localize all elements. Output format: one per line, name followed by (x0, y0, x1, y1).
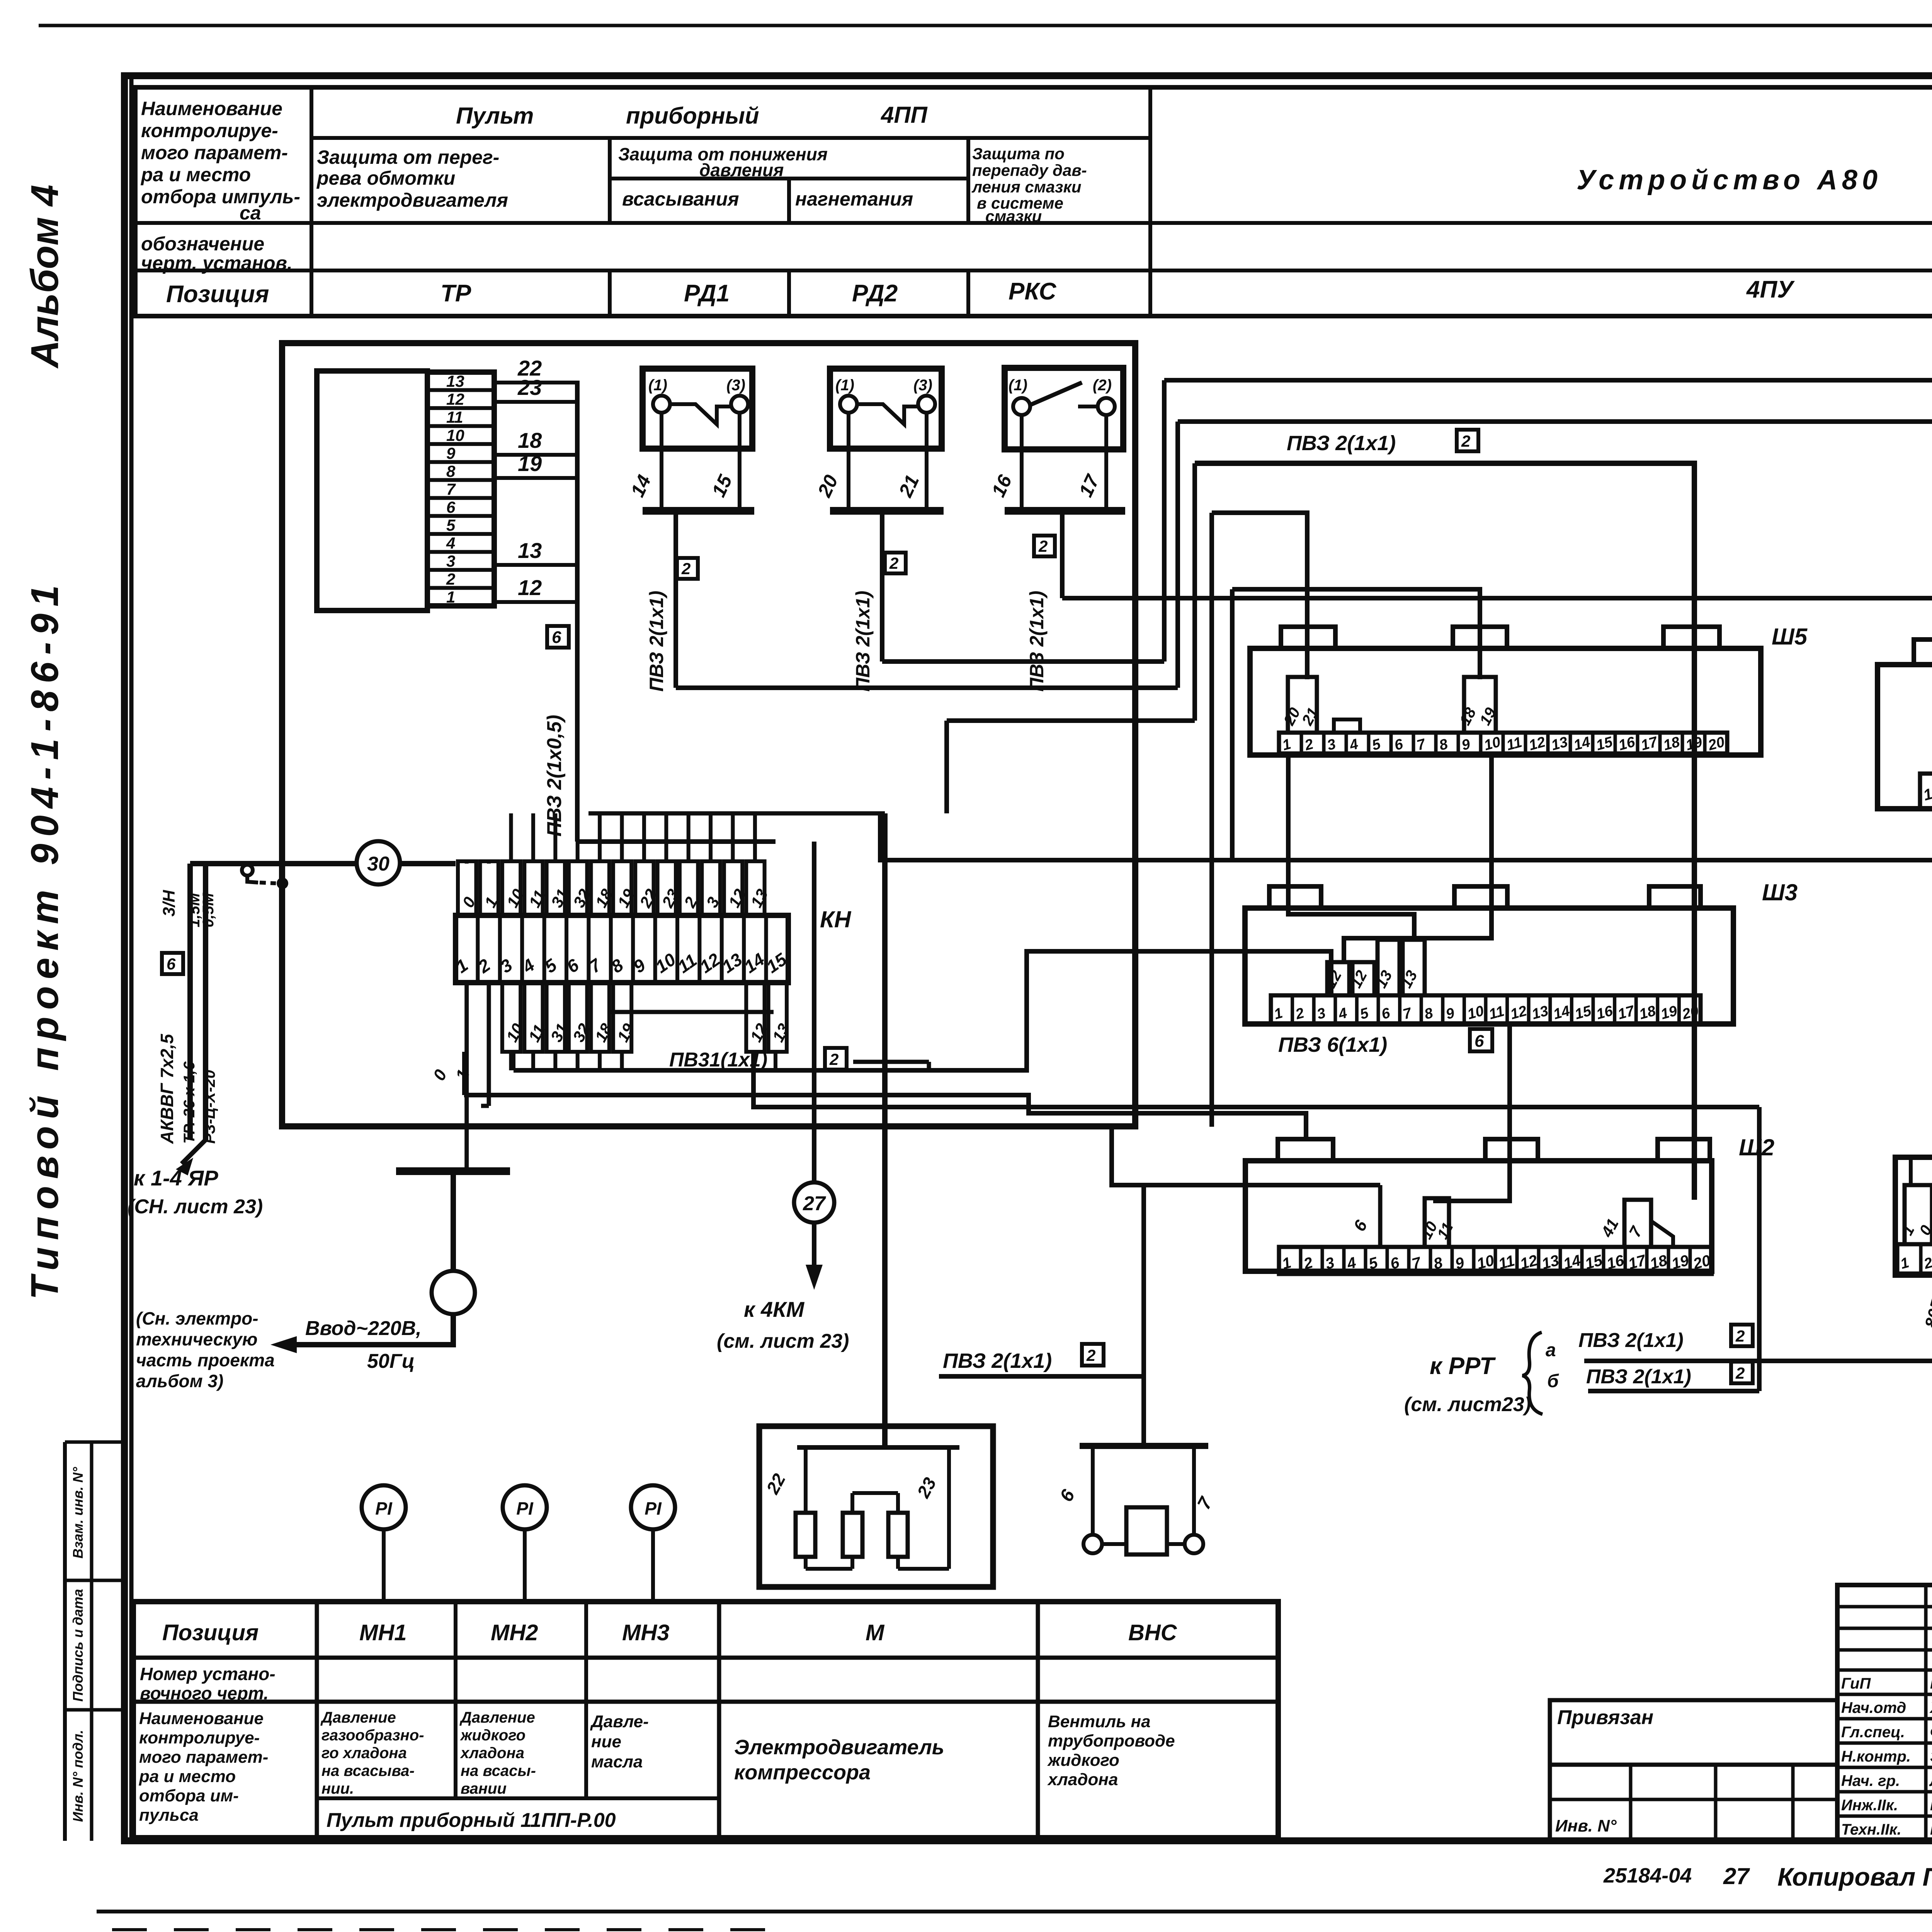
M motor box (759, 1426, 993, 1587)
svg-text:на всасыва-: на всасыва- (321, 1762, 415, 1779)
wire run cable1 to riser (676, 685, 1178, 690)
svg-text:6: 6 (1393, 736, 1405, 753)
svg-text:Нач.отд: Нач.отд (1841, 1699, 1906, 1716)
top table vertical col4 (966, 138, 970, 223)
svg-text:са: са (240, 202, 261, 224)
svg-text:техническую: техническую (136, 1329, 258, 1349)
left cable arrow to 1-4 YaR (182, 1140, 206, 1164)
svg-text:ра и место: ра и место (139, 1767, 236, 1786)
Sh4 tabs on top (1914, 639, 1932, 665)
svg-text:12: 12 (1509, 1003, 1529, 1023)
contact RKS box (1005, 368, 1123, 449)
top table outer border (135, 87, 1932, 316)
top table line under Zashchita ot ponizheniya davleniya (610, 177, 968, 180)
wire run H5 to Sh5 tag 18 19 (1232, 589, 1480, 679)
svg-text:Пульт: Пульт (456, 103, 534, 129)
svg-text:КН: КН (820, 906, 852, 932)
shield hook symbol (242, 865, 253, 876)
wire from KN 12 13 tags to y2865 run (753, 1052, 1759, 1107)
KN node30 wires up from tags 0 1 (465, 861, 469, 864)
svg-text:6: 6 (1056, 1486, 1079, 1505)
svg-text:0,5М: 0,5М (200, 892, 217, 927)
svg-text:11: 11 (446, 408, 463, 426)
svg-text:ПВЗ 2(1х1): ПВЗ 2(1х1) (852, 591, 874, 692)
svg-text:9: 9 (1444, 1005, 1456, 1023)
svg-text:11: 11 (1487, 1003, 1506, 1023)
svg-text:17: 17 (1639, 734, 1660, 754)
svg-text:жидкого: жидкого (460, 1727, 526, 1744)
svg-text:19: 19 (518, 451, 542, 476)
svg-text:4: 4 (446, 534, 455, 552)
bottom table vertical lines (315, 1602, 319, 1838)
svg-text:20: 20 (813, 471, 842, 500)
svg-text:Давление: Давление (459, 1709, 535, 1726)
svg-text:2: 2 (1735, 1364, 1745, 1382)
svg-text:(1): (1) (835, 377, 854, 394)
top table vertical col5 (1148, 87, 1152, 316)
svg-text:ТР. 26 х 1,6: ТР. 26 х 1,6 (181, 1061, 198, 1144)
svg-text:давления: давления (699, 160, 784, 180)
svg-text:к РРТ: к РРТ (1430, 1353, 1496, 1379)
contact RKS blade symbol open (1030, 383, 1082, 405)
svg-text:к 1-4 ЯР: к 1-4 ЯР (134, 1166, 218, 1190)
M motor winding 2 (843, 1513, 862, 1557)
svg-text:(3): (3) (726, 377, 745, 394)
svg-text:7: 7 (1401, 1005, 1414, 1023)
Sh3 tag 12a (1327, 962, 1349, 995)
PI gauge MN2 (503, 1485, 547, 1529)
Sh5 tabs on top (1281, 627, 1335, 648)
svg-text:50Гц: 50Гц (367, 1350, 415, 1372)
wire to 4KM with circle 27 (812, 842, 816, 1182)
contact RD1 cable down (880, 511, 884, 662)
4PP panel enclosure box (282, 343, 1135, 1126)
svg-text:ПВЗ 2(1х1): ПВЗ 2(1х1) (943, 1349, 1052, 1372)
wire short jog with marker 2 (853, 1060, 929, 1064)
svg-text:Давление: Давление (320, 1709, 396, 1726)
svg-text:3: 3 (1315, 1005, 1327, 1023)
contact RD1 box (830, 369, 942, 449)
Sh5 tag 20 21 (1288, 677, 1317, 733)
svg-text:13: 13 (747, 886, 771, 910)
svg-text:2: 2 (1293, 1005, 1306, 1023)
svg-text:вочного черт.: вочного черт. (140, 1683, 269, 1703)
svg-text:Боговская: Боговская (1930, 1797, 1932, 1814)
svg-text:6: 6 (167, 955, 176, 973)
svg-text:17: 17 (1616, 1003, 1637, 1023)
Sh1 terminal strip box (1895, 1157, 1932, 1275)
privyazan lower grid (1550, 1765, 1837, 1840)
KN top tag rects with wire numbers (458, 861, 476, 915)
svg-text:16: 16 (1617, 734, 1637, 754)
svg-text:Защита от перег-: Защита от перег- (317, 146, 499, 168)
svg-text:нии.: нии. (321, 1780, 354, 1797)
svg-text:(1): (1) (648, 377, 667, 394)
svg-text:черт. установ.: черт. установ. (141, 252, 293, 274)
svg-text:Инж.IIк.: Инж.IIк. (1841, 1797, 1898, 1814)
contact RKS bottom bus (1005, 507, 1125, 515)
Sh2 tag 7 with diagonal (1624, 1200, 1651, 1247)
Sh1 cells 1-30 (1897, 1244, 1932, 1274)
contact RKS cable marker 2 (1034, 536, 1055, 556)
svg-text:18: 18 (1456, 705, 1480, 728)
svg-text:Ш2: Ш2 (1739, 1134, 1774, 1160)
svg-text:ПВЗ 2(1х1): ПВЗ 2(1х1) (1578, 1329, 1684, 1352)
svg-text:мого парамет-: мого парамет- (141, 142, 288, 163)
left margin stamp column (63, 1442, 67, 1841)
contact RD1 blade symbol (857, 404, 918, 424)
svg-text:1: 1 (1899, 1255, 1911, 1272)
contact TR box (643, 369, 752, 449)
bottom table outer border (133, 1602, 1278, 1838)
wire KN tag13 down join (774, 1052, 777, 1070)
svg-text:10: 10 (1482, 734, 1502, 754)
svg-text:8: 8 (446, 462, 456, 480)
svg-text:мого парамет-: мого парамет- (139, 1748, 268, 1767)
KN bottom tag rects left group 10 11 31 32 18 19 (502, 983, 520, 1052)
wire into Sh2 tag7 from riser (1692, 1139, 1697, 1200)
svg-text:17: 17 (1075, 471, 1104, 500)
KN top bundle horizontals (588, 811, 885, 816)
svg-text:2: 2 (829, 1050, 838, 1068)
svg-text:го хладона: го хладона (321, 1745, 407, 1762)
M motor wiring (804, 1447, 808, 1513)
contact RD1 terminal circles (840, 396, 857, 413)
Sh3 tabs on top (1269, 886, 1321, 908)
svg-text:(1): (1) (1009, 377, 1027, 394)
svg-text:(Сн. электро-: (Сн. электро- (136, 1308, 259, 1328)
top table vertical col3 sub (787, 179, 791, 223)
svg-text:11: 11 (1505, 734, 1524, 754)
Sh3 tag 13b (1403, 940, 1425, 995)
svg-text:13: 13 (1530, 1003, 1550, 1023)
svg-text:Альбом 4: Альбом 4 (23, 185, 66, 369)
svg-text:30: 30 (367, 853, 389, 875)
svg-text:(3): (3) (913, 377, 932, 394)
arrow down to 4KM (812, 1223, 816, 1267)
svg-text:1: 1 (1899, 1223, 1918, 1238)
Sh2 cells 1-20 (1279, 1247, 1712, 1274)
svg-text:МН2: МН2 (491, 1620, 538, 1645)
bottom table row line under Pozitsiya (133, 1656, 1278, 1660)
svg-text:жидкого: жидкого (1047, 1751, 1119, 1770)
wire run H1 to Sh4 tag15 (1164, 380, 1932, 700)
svg-text:Давле-: Давле- (590, 1712, 649, 1731)
svg-text:2: 2 (1038, 537, 1048, 555)
svg-text:Типовой проект 904-1-86-91: Типовой проект 904-1-86-91 (23, 578, 66, 1299)
contact RD1 bottom bus (830, 507, 944, 515)
svg-text:Пульт приборный 11ПП-Р.00: Пульт приборный 11ПП-Р.00 (327, 1809, 616, 1832)
svg-text:23: 23 (517, 375, 542, 400)
M motor top bar (797, 1445, 959, 1450)
svg-text:9: 9 (1460, 736, 1472, 754)
wire run H2 to Sh4 tag17 (1178, 422, 1932, 713)
left cable marker box 6 (162, 953, 183, 974)
svg-text:18: 18 (1638, 1003, 1658, 1023)
svg-text:всасывания: всасывания (622, 188, 739, 210)
Sh3 terminal strip box (1245, 908, 1733, 1024)
wire run H6 RKS to far right riser (1062, 598, 1932, 1349)
svg-text:14: 14 (1551, 1003, 1571, 1023)
svg-text:Электродвигатель: Электродвигатель (734, 1736, 944, 1759)
svg-text:ра и место: ра и место (140, 164, 251, 185)
svg-text:часть проекта: часть проекта (136, 1350, 275, 1370)
svg-text:7: 7 (446, 480, 456, 498)
svg-text:б: б (1547, 1371, 1559, 1391)
svg-text:трубопроводе: трубопроводе (1048, 1731, 1175, 1750)
svg-text:9: 9 (446, 444, 456, 462)
svg-text:19: 19 (1684, 734, 1704, 754)
svg-text:Ввод~220В,: Ввод~220В, (305, 1317, 422, 1340)
svg-text:5: 5 (1358, 1005, 1371, 1022)
svg-text:масла: масла (591, 1752, 643, 1771)
top table horizontal line under oboznachenie row (135, 269, 1932, 272)
sheet outer top trim line (39, 24, 1932, 27)
transformer circle (451, 1171, 456, 1271)
VNS right leg with circle 7 (1192, 1446, 1196, 1535)
svg-text:13: 13 (446, 372, 464, 390)
svg-text:13: 13 (769, 1020, 793, 1045)
svg-text:12: 12 (446, 390, 464, 408)
top table horizontal line under header (135, 221, 1932, 225)
contact RD1 wires down 20 21 (847, 413, 850, 511)
svg-text:18: 18 (518, 428, 542, 452)
contact TR cable marker 2 (677, 558, 698, 579)
svg-text:Григорьян: Григорьян (1930, 1675, 1932, 1692)
frame left inner doubling line (129, 77, 134, 1839)
Sh3 tag 13a (1378, 940, 1400, 995)
svg-text:6: 6 (1350, 1217, 1371, 1235)
svg-text:(2): (2) (1093, 377, 1112, 394)
svg-text:РД2: РД2 (852, 280, 898, 307)
Sh4 cells 1-20 (1920, 774, 1932, 809)
svg-text:1: 1 (1281, 736, 1293, 754)
Sh5 tag 18 19 (1464, 677, 1496, 733)
svg-text:1: 1 (1272, 1005, 1284, 1023)
wire long run PV31 y2770 to Sh3 tag12 (514, 951, 1331, 1070)
svg-text:5: 5 (446, 516, 456, 534)
svg-text:ние: ние (591, 1732, 621, 1751)
svg-text:Позиция: Позиция (166, 281, 269, 308)
svg-text:Христофоров: Христофоров (1929, 1699, 1932, 1716)
Sh2 tag 10 11 (1425, 1198, 1449, 1247)
top table vertical col1 (310, 87, 313, 316)
svg-text:Н.контр.: Н.контр. (1841, 1748, 1911, 1765)
KN circle node 30 (357, 841, 400, 884)
svg-text:4ПП: 4ПП (881, 102, 928, 128)
terminal block cell column KN13 (427, 372, 494, 606)
privyazan box (1550, 1700, 1837, 1765)
Sh5 terminal strip box (1250, 648, 1761, 755)
svg-text:25184-04: 25184-04 (1603, 1864, 1692, 1887)
svg-text:4: 4 (1347, 736, 1360, 754)
svg-text:2: 2 (1922, 1255, 1932, 1272)
svg-text:Копировал Павлова: Копировал Павлова (1777, 1862, 1932, 1891)
svg-text:Взам. инв. N°: Взам. инв. N° (70, 1467, 86, 1559)
Sh2 tabs on top (1278, 1139, 1333, 1161)
Sh1 tag 1 0 (1905, 1185, 1932, 1244)
svg-text:Фукс: Фукс (1930, 1724, 1932, 1741)
svg-text:3: 3 (446, 552, 455, 570)
svg-text:РЗ-Ц-Х-20: РЗ-Ц-Х-20 (201, 1070, 218, 1144)
svg-text:11: 11 (1434, 1220, 1456, 1242)
top table vertical col2 (608, 138, 612, 223)
svg-text:4ПУ: 4ПУ (1746, 276, 1795, 303)
wire from Sh3 tags down to Sh2 tag 10 11 (1435, 1024, 1510, 1201)
svg-text:РД1: РД1 (684, 280, 730, 307)
svg-text:5: 5 (1370, 736, 1383, 753)
svg-text:хладона: хладона (460, 1745, 524, 1762)
contact TR terminal circles (653, 396, 670, 413)
svg-text:22: 22 (762, 1470, 789, 1498)
svg-text:Золоторева: Золоторева (1930, 1748, 1932, 1765)
svg-text:0: 0 (430, 1066, 451, 1084)
svg-text:Инв. N°: Инв. N° (1555, 1816, 1617, 1835)
svg-text:ГиП: ГиП (1841, 1675, 1871, 1692)
wire riser x3013 (1162, 380, 1167, 662)
svg-text:Шранко: Шранко (1930, 1821, 1932, 1838)
svg-text:хладона: хладона (1047, 1770, 1118, 1789)
svg-text:3: 3 (1325, 736, 1337, 754)
M motor winding 1 (796, 1513, 815, 1557)
Sh5 small bump cells3-4 (1334, 719, 1360, 733)
svg-text:Наименование: Наименование (139, 1709, 264, 1728)
KN wire from node 30 to left risers (190, 861, 357, 866)
svg-text:14: 14 (626, 472, 655, 500)
svg-text:Нач. гр.: Нач. гр. (1841, 1772, 1900, 1789)
svg-text:МН3: МН3 (622, 1620, 669, 1645)
Sh3 tag 12b (1352, 962, 1374, 995)
svg-text:отбора импуль-: отбора импуль- (141, 186, 300, 207)
Sh3 cells 1-20 (1271, 995, 1701, 1024)
left cable risers pair (187, 864, 193, 1140)
Sh2 wire 6 into cell5 (1378, 1185, 1383, 1247)
svg-text:PI: PI (645, 1498, 662, 1519)
svg-text:PI: PI (375, 1498, 393, 1519)
svg-text:21: 21 (895, 472, 923, 501)
contact TR wires down 14 15 (660, 413, 663, 511)
svg-text:18: 18 (1662, 734, 1682, 754)
wire stub below KN join (512, 1052, 515, 1070)
svg-text:отбора им-: отбора им- (139, 1786, 239, 1805)
RRT a wire (1584, 1359, 1932, 1363)
svg-text:Гл.спец.: Гл.спец. (1841, 1724, 1905, 1741)
VNS top bar (1080, 1443, 1208, 1449)
svg-text:Ш5: Ш5 (1772, 624, 1808, 650)
svg-text:8: 8 (1423, 1005, 1435, 1022)
svg-text:27: 27 (1723, 1863, 1750, 1889)
contact RKS cable down (1060, 511, 1065, 598)
svg-text:ПВЗ 2(1х1): ПВЗ 2(1х1) (1026, 591, 1048, 692)
svg-text:Наименование: Наименование (141, 98, 282, 119)
svg-text:41: 41 (1597, 1216, 1622, 1240)
terminal block blank body (317, 371, 427, 611)
svg-text:4: 4 (1337, 1005, 1349, 1023)
PI gauge MN3 (631, 1485, 675, 1529)
svg-text:Инв. N° подл.: Инв. N° подл. (70, 1730, 86, 1822)
svg-text:15: 15 (1573, 1003, 1594, 1023)
svg-text:14: 14 (1572, 734, 1592, 754)
svg-text:компрессора: компрессора (734, 1761, 871, 1784)
VNS cross links (1102, 1542, 1126, 1546)
svg-text:6: 6 (446, 498, 456, 516)
svg-text:газообразно-: газообразно- (321, 1727, 424, 1744)
svg-text:10: 10 (1466, 1003, 1486, 1023)
svg-text:вании: вании (461, 1780, 507, 1797)
svg-text:13: 13 (518, 538, 542, 563)
svg-text:рева обмотки: рева обмотки (316, 167, 455, 189)
wire run H4 to Sh5 tag 20 21 (1212, 513, 1307, 679)
svg-text:2: 2 (446, 570, 455, 588)
ground bar under KN (396, 1167, 510, 1175)
svg-text:2: 2 (1735, 1327, 1745, 1345)
svg-text:ТР: ТР (440, 280, 471, 307)
M motor winding 3 (888, 1513, 908, 1557)
svg-text:3/Н: 3/Н (160, 889, 179, 917)
svg-text:16: 16 (987, 471, 1016, 500)
svg-text:Техн.IIк.: Техн.IIк. (1841, 1821, 1901, 1838)
wire riser x3189 (1230, 589, 1235, 860)
KN terminal strip cells (456, 915, 788, 983)
svg-text:16: 16 (1595, 1003, 1615, 1023)
wire riser x4553 down to b-wire (1757, 1107, 1762, 1378)
bottom table row line under Nomer ustanov (133, 1700, 1278, 1704)
svg-text:(СН. лист 23): (СН. лист 23) (128, 1196, 263, 1218)
svg-text:Вентиль на: Вентиль на (1048, 1712, 1151, 1731)
svg-text:6: 6 (1380, 1005, 1392, 1022)
wires from Sh5 down to Sh3 tags (1344, 755, 1492, 962)
KN top tag riser wires (509, 813, 513, 861)
KN bottom tag drop wires (509, 1052, 513, 1070)
svg-text:ПВЗ 2(1х1): ПВЗ 2(1х1) (1586, 1366, 1691, 1388)
stub wires with numbers 22 23 18 19 13 12 (494, 381, 577, 384)
wire long run y2226 to Sh1 (880, 813, 1932, 1157)
svg-text:ПВЗ 6(1х1): ПВЗ 6(1х1) (1278, 1033, 1387, 1056)
svg-text:Подпись и дата: Подпись и дата (70, 1589, 86, 1702)
contact RKS wires down 16 17 (1020, 415, 1024, 511)
RRT b wire (1588, 1389, 1759, 1393)
svg-text:15: 15 (1594, 734, 1615, 754)
wire down from transformer with arrow Vvod 220V (288, 1314, 453, 1345)
svg-text:7: 7 (1625, 1223, 1646, 1240)
svg-text:0: 0 (1916, 1223, 1932, 1238)
svg-text:2: 2 (1461, 432, 1470, 450)
svg-text:Привязан: Привязан (1557, 1706, 1653, 1729)
wire link below KN tags y2619 (607, 1010, 774, 1014)
svg-text:М: М (866, 1620, 885, 1645)
svg-text:1: 1 (1922, 785, 1932, 804)
sheet outer bottom trim line (97, 1910, 1932, 1913)
VNS left leg with circle 6 (1091, 1446, 1095, 1535)
svg-text:805: 805 (1921, 1298, 1932, 1330)
title block signature table (1837, 1585, 1932, 1840)
svg-text:27: 27 (803, 1192, 826, 1215)
svg-text:ПВЗ 2(1х1): ПВЗ 2(1х1) (646, 591, 667, 692)
cable marker box 6 (547, 626, 569, 648)
Sh4 terminal strip box (1878, 665, 1932, 809)
svg-text:к 4КМ: к 4КМ (744, 1297, 805, 1321)
svg-text:пульса: пульса (139, 1806, 199, 1825)
svg-text:Устройство А80: Устройство А80 (1577, 165, 1882, 196)
svg-text:6: 6 (552, 628, 561, 647)
svg-text:20: 20 (1680, 1003, 1701, 1023)
svg-text:контролируе-: контролируе- (141, 120, 278, 141)
svg-text:19: 19 (1659, 1003, 1679, 1023)
circle node 27 (794, 1182, 834, 1223)
svg-text:15: 15 (707, 471, 736, 500)
svg-text:Позиция: Позиция (162, 1620, 259, 1645)
svg-text:19: 19 (614, 1020, 638, 1045)
